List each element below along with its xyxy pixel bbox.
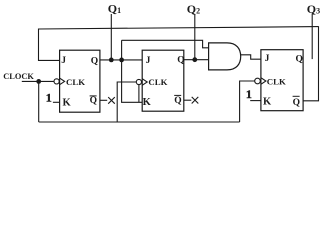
U1 pin label Qbar xyxy=(90,96,97,106)
wire rail A left drop to J1 xyxy=(39,29,60,61)
svg-text:Q3: Q3 xyxy=(307,2,320,16)
svg-text:Q2: Q2 xyxy=(187,2,200,16)
wire Q2 to AND bottom input xyxy=(184,59,209,61)
svg-text:Q: Q xyxy=(177,56,184,66)
node Q1 tap wire xyxy=(110,14,112,60)
wire clock riser to U2 CLK xyxy=(117,82,136,122)
svg-text:Q1: Q1 xyxy=(108,2,121,16)
svg-text:Q: Q xyxy=(91,56,98,66)
wire rail B Q1 to AND top input xyxy=(122,40,209,48)
wire Q1bar stub xyxy=(100,99,107,101)
wire CLOCK input xyxy=(22,80,54,82)
U3 CLK edge triangle xyxy=(261,78,266,85)
wire Q1 to J2 xyxy=(100,59,142,61)
junction dot node Q1 branch xyxy=(119,58,124,63)
svg-text:CLOCK: CLOCK xyxy=(3,72,34,81)
svg-text:J: J xyxy=(146,56,151,66)
node Q2 tap wire xyxy=(194,14,196,60)
svg-text:CLK: CLK xyxy=(66,77,85,87)
wire bottom clock rail xyxy=(39,121,240,123)
wire rail A top feedback from Q3bar to J1 xyxy=(39,27,319,29)
JK flip-flop U3 box xyxy=(261,50,303,111)
svg-text:1: 1 xyxy=(46,90,52,104)
svg-text:CLK: CLK xyxy=(148,77,167,87)
wire 1 to K3 xyxy=(250,100,261,102)
JK flip-flop U2 box xyxy=(142,50,184,111)
node Q3 tap wire xyxy=(311,14,313,59)
svg-text:CLK: CLK xyxy=(267,77,286,87)
junction dot clock node xyxy=(36,79,41,84)
wire 1 to K1 xyxy=(53,101,60,103)
junction dot node Q2 tap xyxy=(192,57,197,62)
U2 CLK edge triangle xyxy=(142,79,147,86)
AND gate G1 xyxy=(209,43,241,70)
U2 pin label Qbar xyxy=(174,95,181,105)
svg-text:Q: Q xyxy=(293,98,300,108)
U1 CLK bubble xyxy=(54,79,59,84)
wire clock riser to bottom rail xyxy=(38,81,40,122)
no-connect X on Q2bar xyxy=(192,97,199,104)
wire clock riser to U3 CLK xyxy=(240,81,255,122)
svg-text:J: J xyxy=(265,54,270,64)
svg-text:1: 1 xyxy=(246,87,252,101)
no-connect X on Q1bar xyxy=(108,97,115,104)
wire AND output to J3 xyxy=(241,55,261,59)
U3 CLK bubble xyxy=(255,78,261,84)
JK flip-flop U1 box xyxy=(60,50,100,112)
svg-text:K: K xyxy=(63,98,72,109)
svg-text:Q: Q xyxy=(90,96,97,106)
U1 CLK edge triangle xyxy=(60,78,65,85)
U3 pin label Qbar xyxy=(293,96,300,108)
wire rail A right drop from Q3bar xyxy=(303,26,319,101)
wire U2 bubble drop xyxy=(138,85,140,103)
svg-text:K: K xyxy=(263,97,272,108)
svg-text:K: K xyxy=(143,97,152,108)
wire vertical B Q1 to K2 xyxy=(122,40,143,102)
wire Q2bar stub xyxy=(184,99,192,101)
svg-text:Q: Q xyxy=(174,96,181,106)
svg-text:Q: Q xyxy=(296,55,303,65)
U2 CLK bubble xyxy=(136,79,141,84)
svg-text:J: J xyxy=(61,56,66,66)
junction dot node Q1 tap xyxy=(109,58,114,63)
